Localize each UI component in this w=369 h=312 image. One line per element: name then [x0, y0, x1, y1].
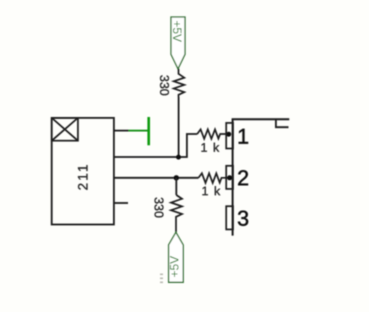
- svg-text:330: 330: [152, 197, 166, 218]
- wire (green) to bar: [129, 130, 148, 132]
- resistor R1 330 (vertical, top): [174, 69, 185, 97]
- junction dot at pin 1: [226, 132, 231, 137]
- pin C + wire to R4: [114, 177, 199, 179]
- svg-text:330: 330: [157, 75, 171, 96]
- green terminal bar: [147, 117, 150, 145]
- resistor R4 1k (horizontal, row 2): [199, 173, 230, 183]
- power flag +5V (bottom, rotated 180): [168, 232, 184, 282]
- svg-text:2: 2: [237, 166, 249, 190]
- faint dots artifact near bottom flag: [160, 274, 163, 284]
- X-marked square (box top-left decoration): [52, 118, 78, 141]
- pin D (unconnected stub): [114, 202, 128, 204]
- resistor R3 1k (horizontal, row 1): [197, 129, 228, 138]
- junction dot at pin 2: [227, 175, 232, 180]
- svg-text:1k: 1k: [201, 184, 225, 198]
- svg-text:1: 1: [237, 125, 249, 149]
- pin 3 box: [226, 206, 233, 229]
- svg-text:1k: 1k: [200, 141, 224, 155]
- node A (junction dot): [176, 155, 181, 160]
- pin B + wire to node A and up to R3: [114, 134, 197, 157]
- svg-text:+5V: +5V: [168, 256, 182, 278]
- pin A (box pin to green bar): [114, 130, 129, 132]
- wire node B down to R2: [175, 178, 177, 195]
- connector top line: [232, 118, 290, 120]
- wire R1 bottom to node A: [178, 97, 180, 157]
- node B (junction dot): [174, 175, 179, 180]
- svg-text:211: 211: [75, 164, 90, 190]
- connector notch step: [276, 119, 289, 127]
- pin 2 box: [226, 166, 233, 189]
- IC box U1 (211): [52, 118, 114, 225]
- svg-text:+5V: +5V: [170, 20, 184, 42]
- power flag +5V (top): [170, 17, 185, 69]
- pin 1 box: [226, 123, 233, 149]
- connector J1 body edge: [232, 119, 234, 235]
- svg-text:3: 3: [237, 207, 249, 231]
- resistor R2 330 (vertical, bottom): [171, 195, 182, 232]
